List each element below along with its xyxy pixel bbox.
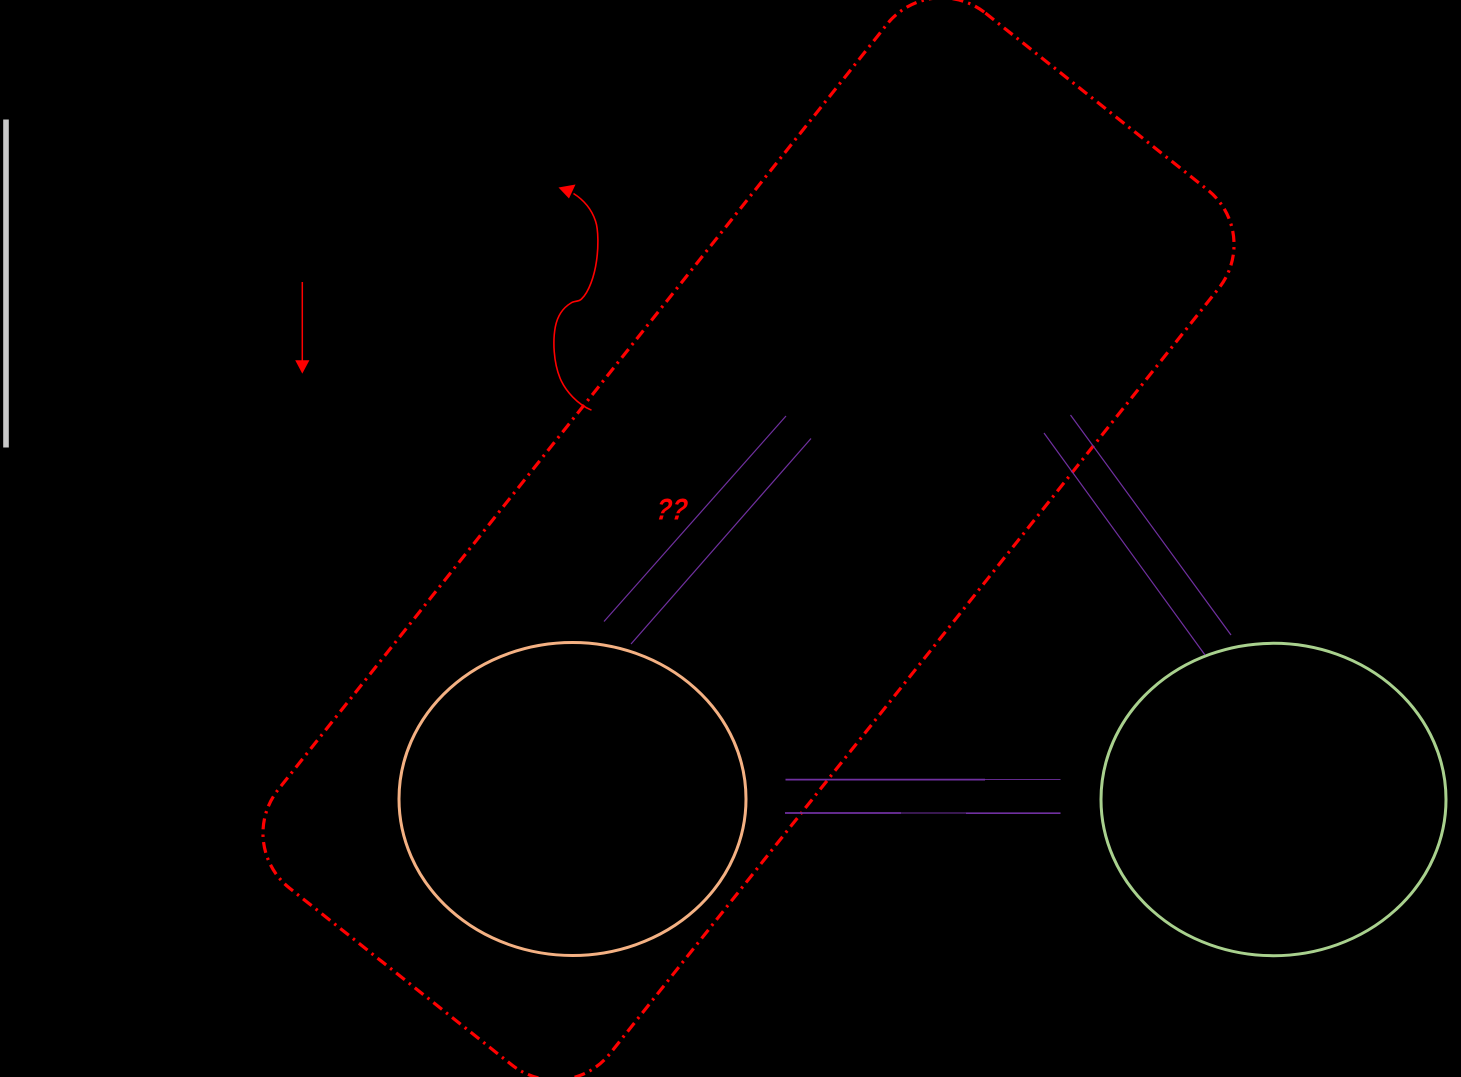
red dash-dot rounded rectangle (rotated group boundary) <box>235 0 1263 1077</box>
red straight down arrow <box>295 282 309 374</box>
red '??' label <box>654 494 690 527</box>
svg-text:??: ?? <box>654 494 690 527</box>
gray vertical bar <box>3 120 9 448</box>
double edge: top to green ellipse <box>1044 415 1231 655</box>
double edge: orange to green ellipse (horizontal) <box>785 780 1061 814</box>
green ellipse node <box>1101 643 1446 955</box>
double edge: top to orange ellipse <box>604 416 811 644</box>
orange ellipse node <box>399 643 746 956</box>
red curved S arrow <box>554 185 598 411</box>
